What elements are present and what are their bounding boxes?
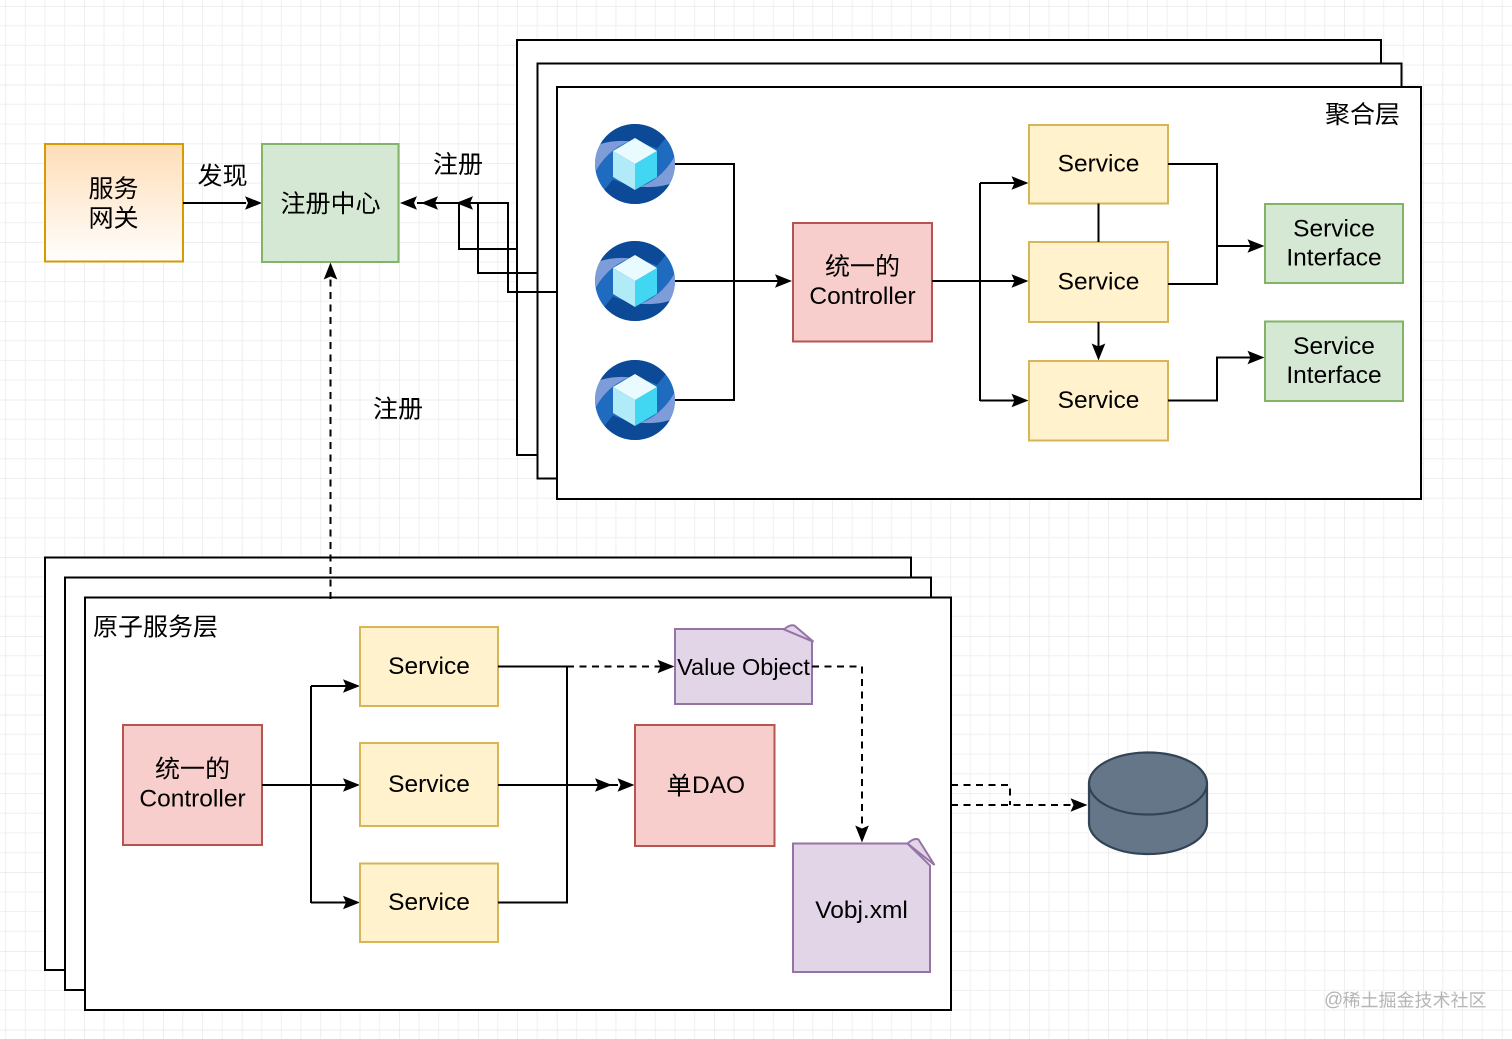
service icon 1 [595,124,675,204]
wire 注册 B: middle page to registry [438,203,538,273]
box Service 3 (bottom) [360,864,498,943]
label 聚合层 [1326,102,1399,125]
wire 注册 C: back page to registry [459,203,517,249]
box Service 1 (bottom) [360,627,498,706]
database cylinder [1089,753,1207,855]
aggregation layer front page 聚合层 [557,87,1421,499]
atomic service layer front page 原子服务层 [85,598,951,1011]
svg-text:Service: Service [1058,387,1140,414]
box Service 2 (top) [1029,242,1168,322]
box 单DAO [635,725,775,846]
aggregation layer stacked page back [517,40,1381,455]
box 统一的Controller (bottom) [123,725,262,845]
wire Service3 to Service Interface 2 [1168,358,1260,401]
wire branch to Service 3 (bottom) [311,902,356,904]
svg-text:Service: Service [1293,216,1375,243]
wire Service1 down to Service2 [1098,204,1100,243]
dashed wire page edge to database (upper jog) [951,785,1010,805]
wire 注册 A: front page to registry [417,203,557,292]
atomic service layer stacked page back [45,558,911,971]
svg-text:Service: Service [388,653,470,680]
box 统一的Controller (top) [793,223,932,342]
box Service 1 (top) [1029,125,1168,204]
box 服务网关 service gateway [45,144,183,262]
note Value Object [675,629,812,704]
wire Service2 down-arrow to Service3 [1098,322,1100,356]
wire branch to Service 1 [980,182,1024,184]
label 发现 [198,164,246,187]
wire branch to Service 3 [980,400,1024,402]
svg-text:Interface: Interface [1286,245,1381,272]
svg-text:Service: Service [388,889,470,916]
box Service 3 (top) [1029,361,1168,441]
wire controller to services trunk [932,280,1024,282]
box Service Interface 1 [1265,204,1403,283]
box 注册中心 registry [262,144,399,262]
svg-text:Service: Service [1058,269,1140,296]
wire branch to Service 1 (bottom) [311,685,356,687]
dashed wire page edge to database [951,804,1082,806]
svg-text:Vobj.xml: Vobj.xml [815,897,908,924]
dashed wire Service1 to Value Object [567,666,670,668]
service icon 2 [595,241,675,321]
wire icons to controller [675,280,788,282]
wire services collector (bottom) [498,667,567,903]
svg-text:Value Object: Value Object [677,654,810,680]
atomic service layer stacked page middle [65,578,931,991]
box Service 2 (bottom) [360,743,498,826]
label 原子服务层 [94,615,217,638]
wire controller to services trunk (bottom) [262,784,356,786]
svg-text:Service: Service [388,771,470,798]
label 注册 top [434,152,482,175]
dashed wire Value Object to Vobj.xml [812,667,862,838]
svg-text:Controller: Controller [809,283,915,310]
svg-text:DAO: DAO [692,772,745,799]
wire icon1 to bus [675,164,734,400]
wire Service2 to 单DAO double arrow [498,784,618,786]
wire Service1+2 to Service Interface 1 [1168,164,1217,284]
svg-text:Service: Service [1058,151,1140,178]
svg-text:Interface: Interface [1286,362,1381,389]
svg-text:Controller: Controller [139,786,245,813]
box Service Interface 2 [1265,322,1403,402]
svg-text:Service: Service [1293,333,1375,360]
wire 发现: gateway to registry [183,202,246,204]
service icon 3 [595,360,675,440]
note Vobj.xml [793,844,930,973]
aggregation layer stacked page middle [538,64,1402,479]
dashed wire 注册: atomic layer up to registry [330,266,332,599]
svg-text:@: @ [1324,990,1343,1011]
label 注册 middle [374,397,422,420]
